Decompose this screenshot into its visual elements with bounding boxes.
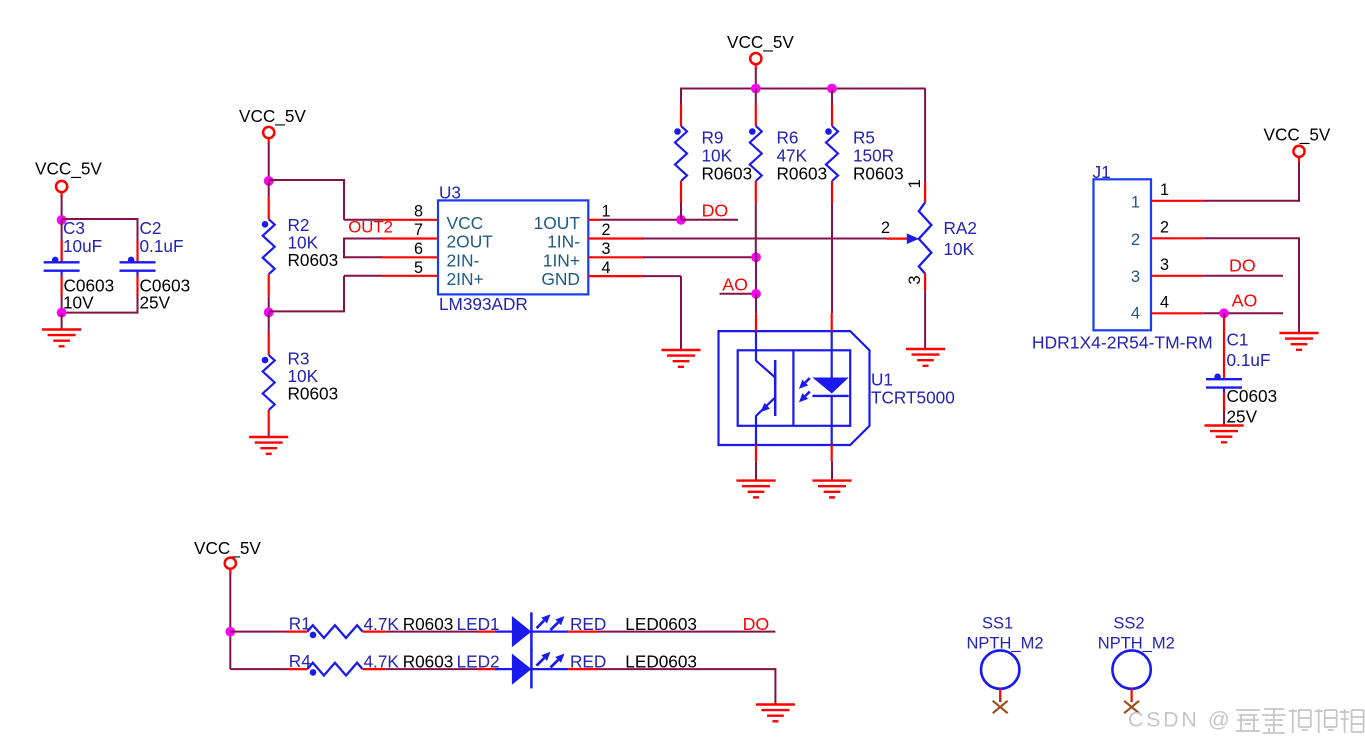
wire bbox=[643, 275, 681, 277]
wire bbox=[62, 218, 138, 220]
node junction bbox=[225, 627, 235, 637]
svg-text:2IN-: 2IN- bbox=[447, 251, 480, 271]
wire bbox=[269, 179, 344, 181]
svg-text:2: 2 bbox=[881, 219, 890, 237]
ground bbox=[1279, 333, 1318, 350]
svg-text:25V: 25V bbox=[140, 293, 171, 313]
svg-text:J1: J1 bbox=[1093, 162, 1111, 182]
svg-text:LED2: LED2 bbox=[457, 652, 500, 672]
svg-text:7: 7 bbox=[414, 221, 423, 239]
wire bbox=[1298, 237, 1300, 333]
node junction bbox=[827, 84, 837, 94]
svg-text:1: 1 bbox=[906, 179, 924, 188]
LED LED2 bbox=[457, 650, 697, 689]
svg-text:VCC_5V: VCC_5V bbox=[239, 106, 306, 126]
wire bbox=[61, 197, 63, 221]
svg-text:3: 3 bbox=[906, 275, 924, 284]
svg-text:150R: 150R bbox=[853, 146, 894, 166]
pin bbox=[1298, 156, 1300, 163]
wire bbox=[755, 69, 757, 89]
pin of U1 anode bbox=[831, 313, 833, 331]
node junction bbox=[57, 308, 67, 318]
svg-text:R5: R5 bbox=[853, 128, 875, 148]
pin 4 bbox=[588, 275, 644, 277]
capacitor C1 bbox=[1206, 318, 1277, 426]
wire bbox=[344, 219, 383, 221]
wire bbox=[831, 461, 833, 480]
power flag VCC_5V (LEDs) bbox=[194, 538, 261, 569]
wire bbox=[230, 668, 287, 670]
LED LED1 bbox=[457, 612, 697, 651]
pin bbox=[229, 568, 231, 575]
op-amp U3 LM393ADR bbox=[438, 183, 588, 315]
power flag VCC_5V (top bus) bbox=[727, 32, 794, 64]
resistor R3 bbox=[262, 312, 338, 437]
power flag VCC_5V (J1) bbox=[1264, 125, 1331, 157]
svg-text:10uF: 10uF bbox=[63, 236, 102, 256]
mounting hole SS1 NPTH_M2 bbox=[966, 615, 1043, 703]
wire bbox=[269, 310, 344, 312]
power flag VCC_5V (decoupling caps) bbox=[35, 159, 102, 192]
wire bbox=[755, 257, 757, 294]
svg-text:25V: 25V bbox=[1227, 406, 1258, 426]
svg-text:5: 5 bbox=[414, 259, 423, 277]
wire bbox=[598, 631, 776, 633]
svg-text:AO: AO bbox=[722, 274, 748, 294]
potentiometer RA2 bbox=[881, 89, 977, 350]
wire bbox=[1203, 237, 1299, 239]
wire bbox=[343, 276, 345, 313]
connector J1 HDR1X4 bbox=[1032, 162, 1213, 353]
svg-text:U3: U3 bbox=[439, 183, 461, 203]
svg-text:10K: 10K bbox=[702, 146, 733, 166]
capacitor C3 bbox=[44, 218, 115, 313]
svg-text:U1: U1 bbox=[871, 370, 893, 390]
svg-text:SS1: SS1 bbox=[982, 615, 1013, 633]
node junction AO bbox=[751, 289, 761, 299]
svg-text:C2: C2 bbox=[140, 218, 162, 238]
svg-text:10V: 10V bbox=[63, 293, 94, 313]
no-connect X of SS2 bbox=[1124, 701, 1139, 713]
wire bbox=[1203, 200, 1299, 202]
wire bbox=[343, 179, 345, 220]
power flag VCC_5V (R2 divider) bbox=[239, 106, 306, 138]
wire bbox=[643, 238, 887, 240]
no-connect X of SS1 bbox=[993, 701, 1008, 713]
wire bbox=[1298, 162, 1300, 202]
optocoupler U1 TCRT5000 bbox=[719, 331, 955, 445]
wire bbox=[681, 219, 738, 221]
pin 2 bbox=[588, 237, 644, 239]
pin 3 of J1 bbox=[1151, 275, 1203, 277]
mounting hole SS2 NPTH_M2 bbox=[1098, 615, 1175, 703]
svg-text:RA2: RA2 bbox=[944, 218, 977, 238]
svg-text:3: 3 bbox=[1160, 256, 1169, 274]
wire bbox=[61, 220, 63, 262]
svg-text:VCC_5V: VCC_5V bbox=[194, 538, 261, 558]
node junction DO bbox=[676, 215, 686, 225]
wire bbox=[62, 312, 138, 314]
resistor R2 bbox=[262, 181, 338, 312]
wire bbox=[1203, 275, 1283, 277]
svg-text:1IN-: 1IN- bbox=[547, 232, 580, 252]
svg-text:VCC_5V: VCC_5V bbox=[35, 159, 102, 179]
svg-text:R9: R9 bbox=[702, 128, 724, 148]
svg-text:2IN+: 2IN+ bbox=[447, 269, 484, 289]
wire bbox=[755, 461, 757, 480]
wire bbox=[643, 256, 756, 258]
node junction bbox=[57, 215, 67, 225]
svg-text:SS2: SS2 bbox=[1113, 615, 1144, 633]
resistor R6 bbox=[749, 89, 827, 258]
ground bbox=[249, 437, 288, 454]
wire bbox=[774, 668, 776, 704]
node junction bbox=[751, 84, 761, 94]
resistor R9 bbox=[674, 89, 752, 220]
svg-text:DO: DO bbox=[1229, 255, 1256, 275]
svg-text:1: 1 bbox=[1131, 193, 1140, 211]
svg-text:R4: R4 bbox=[289, 651, 311, 671]
pin of U1 collector bbox=[755, 313, 757, 331]
resistor R4 bbox=[287, 651, 454, 676]
node junction bbox=[264, 176, 274, 186]
wire bbox=[755, 294, 757, 314]
svg-text:LM393ADR: LM393ADR bbox=[439, 294, 528, 314]
svg-text:DO: DO bbox=[702, 200, 729, 220]
ground bbox=[736, 481, 775, 498]
wire bbox=[344, 256, 383, 258]
wire bbox=[344, 238, 383, 240]
svg-text:2: 2 bbox=[602, 221, 611, 239]
pin 1 of J1 bbox=[1151, 200, 1203, 202]
wire bus bbox=[680, 88, 926, 90]
ground bbox=[906, 349, 945, 366]
svg-text:2: 2 bbox=[1160, 218, 1169, 236]
wire bbox=[344, 275, 383, 277]
svg-text:3: 3 bbox=[602, 240, 611, 258]
resistor R1 bbox=[287, 614, 454, 639]
wire AO stub bbox=[720, 293, 757, 295]
svg-text:VCC_5V: VCC_5V bbox=[727, 32, 794, 52]
svg-text:1: 1 bbox=[602, 203, 611, 221]
ground bbox=[812, 481, 851, 498]
svg-text:C3: C3 bbox=[63, 218, 85, 238]
svg-text:1OUT: 1OUT bbox=[534, 213, 581, 233]
pin 4 of J1 bbox=[1151, 312, 1203, 314]
svg-text:0.1uF: 0.1uF bbox=[1227, 350, 1271, 370]
svg-text:4: 4 bbox=[1160, 293, 1169, 311]
node junction bbox=[751, 252, 761, 262]
svg-text:R6: R6 bbox=[777, 128, 799, 148]
svg-text:3: 3 bbox=[1131, 268, 1140, 286]
pin 2 of J1 bbox=[1151, 237, 1203, 239]
capacitor C2 bbox=[120, 218, 191, 313]
svg-text:2: 2 bbox=[1131, 231, 1140, 249]
node junction bbox=[1219, 308, 1229, 318]
svg-text:47K: 47K bbox=[777, 146, 808, 166]
ground bbox=[1204, 426, 1243, 443]
pin bbox=[268, 137, 270, 144]
svg-text:CSDN @: CSDN @ bbox=[1128, 708, 1232, 732]
wire bbox=[268, 143, 270, 181]
wire bbox=[61, 313, 63, 330]
wire bbox=[1223, 313, 1225, 322]
svg-text:4: 4 bbox=[602, 259, 611, 277]
wire bbox=[385, 631, 479, 633]
svg-text:4: 4 bbox=[1131, 305, 1140, 323]
pin bbox=[755, 63, 757, 70]
ground bbox=[756, 705, 795, 722]
svg-text:C0603: C0603 bbox=[1227, 386, 1278, 406]
wire bbox=[230, 631, 287, 633]
infrared LED section of U1 bbox=[799, 332, 849, 446]
ground bbox=[661, 350, 700, 367]
wire bbox=[385, 668, 479, 670]
pin 6 bbox=[382, 256, 439, 258]
pin 7 bbox=[382, 237, 439, 239]
svg-text:VCC_5V: VCC_5V bbox=[1264, 125, 1331, 145]
pin of U1 cathode bbox=[831, 445, 833, 461]
svg-text:8: 8 bbox=[414, 203, 423, 221]
wire bbox=[599, 219, 681, 221]
svg-text:6: 6 bbox=[414, 240, 423, 258]
svg-text:0.1uF: 0.1uF bbox=[140, 236, 184, 256]
svg-text:R0603: R0603 bbox=[288, 384, 339, 404]
pin bbox=[60, 191, 62, 198]
svg-text:TCRT5000: TCRT5000 bbox=[871, 388, 955, 408]
wire bbox=[137, 218, 139, 262]
pin 3 bbox=[588, 256, 644, 258]
svg-text:2OUT: 2OUT bbox=[447, 232, 494, 252]
ground bbox=[42, 330, 81, 347]
svg-text:1: 1 bbox=[1160, 181, 1169, 199]
watermark CSDN bbox=[1128, 708, 1364, 734]
resistor R5 bbox=[825, 89, 903, 314]
svg-text:LED1: LED1 bbox=[457, 614, 500, 634]
wire bbox=[229, 574, 231, 669]
pin 1 bbox=[588, 219, 599, 221]
node junction bbox=[264, 308, 274, 318]
wire OUT2 loop bbox=[343, 238, 345, 259]
wire bbox=[598, 668, 776, 670]
pin 5 bbox=[382, 275, 439, 277]
svg-text:DO: DO bbox=[743, 614, 770, 634]
svg-text:R0603: R0603 bbox=[853, 164, 904, 184]
wire bbox=[1203, 312, 1283, 314]
svg-text:AO: AO bbox=[1232, 290, 1258, 310]
svg-text:1IN+: 1IN+ bbox=[543, 251, 580, 271]
wire bbox=[680, 276, 682, 350]
svg-text:VCC: VCC bbox=[447, 213, 484, 233]
svg-text:R1: R1 bbox=[289, 614, 311, 634]
svg-text:R0603: R0603 bbox=[777, 164, 828, 184]
svg-text:R0603: R0603 bbox=[702, 164, 753, 184]
wire bbox=[1223, 411, 1225, 426]
pin 8 bbox=[382, 219, 439, 221]
wire bbox=[61, 295, 63, 313]
pin of U1 emitter bbox=[755, 445, 757, 461]
phototransistor section of U1 bbox=[756, 332, 775, 446]
svg-text:10K: 10K bbox=[944, 239, 975, 259]
svg-text:R0603: R0603 bbox=[288, 250, 339, 270]
svg-text:C1: C1 bbox=[1227, 330, 1249, 350]
wire bbox=[137, 295, 139, 314]
svg-text:HDR1X4-2R54-TM-RM: HDR1X4-2R54-TM-RM bbox=[1032, 333, 1213, 353]
svg-text:GND: GND bbox=[541, 269, 580, 289]
